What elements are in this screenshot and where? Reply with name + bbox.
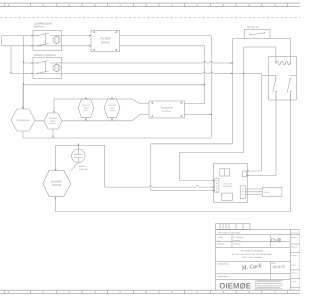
svg-text:(PRI.): (PRI.): [84, 109, 89, 112]
svg-text:TAB.SPINE ATTACHORE: TAB.SPINE ATTACHORE: [218, 231, 241, 234]
svg-text:capacitor: capacitor: [79, 168, 88, 171]
svg-text:PRESS.C SWITCH: PRESS.C SWITCH: [34, 54, 56, 57]
svg-text:CONTROL: CONTROL: [223, 185, 232, 188]
svg-text:FBk.1: FBk.1: [265, 191, 270, 194]
svg-text:Revisione: Revisione: [291, 231, 298, 234]
svg-text:±0.1 for 1 off: about 2 3/4 ±0: ±0.1 for 1 off: about 2 3/4 ±0.3 (5mm) l…: [232, 253, 272, 256]
svg-text:REV.B L2U: REV.B L2U: [247, 26, 259, 29]
svg-text:Material:: Material:: [218, 242, 226, 245]
svg-text:to 12Vcc: to 12Vcc: [162, 110, 172, 113]
svg-text:Cod. fil: Cod. fil: [291, 280, 297, 283]
svg-text:NXF B: NXF B: [101, 40, 110, 44]
svg-text:Compressor: Compressor: [16, 119, 29, 122]
svg-text:Designed by:: Designed by:: [218, 263, 230, 266]
svg-text:SWITCH: SWITCH: [34, 26, 44, 29]
svg-text:Transformer: Transformer: [161, 107, 174, 110]
svg-text:MOTOR: MOTOR: [52, 184, 61, 187]
svg-text:1:2: 1:2: [218, 239, 220, 242]
svg-text:Materia: Materia: [291, 246, 297, 249]
svg-text:N° Dra: N° Dra: [291, 271, 296, 274]
svg-text:Weight: Weight: [291, 254, 297, 257]
svg-text:N° Disegno:: N° Disegno:: [234, 236, 245, 239]
svg-text:Messi ge: Messi ge: [234, 239, 241, 242]
svg-text:Messa: Messa: [291, 236, 296, 239]
svg-text:Peso gr:: Peso gr:: [234, 242, 242, 245]
svg-text:Scale:: Scale:: [218, 236, 224, 239]
svg-text:± 0.5° unless disagree: ± 0.5° unless disagree: [242, 256, 263, 259]
svg-text:TOLERANCE GENERAL: TOLERANCE GENERAL: [240, 250, 264, 253]
svg-text:Approved by:: Approved by:: [218, 275, 230, 278]
svg-text:OIEMØE: OIEMØE: [219, 282, 251, 291]
svg-text:(PRI.): (PRI.): [110, 109, 115, 112]
svg-text:comp. 1: comp. 1: [50, 122, 56, 125]
svg-text:Scala: Scala: [291, 263, 295, 266]
svg-text:Runner: Runner: [79, 165, 86, 168]
